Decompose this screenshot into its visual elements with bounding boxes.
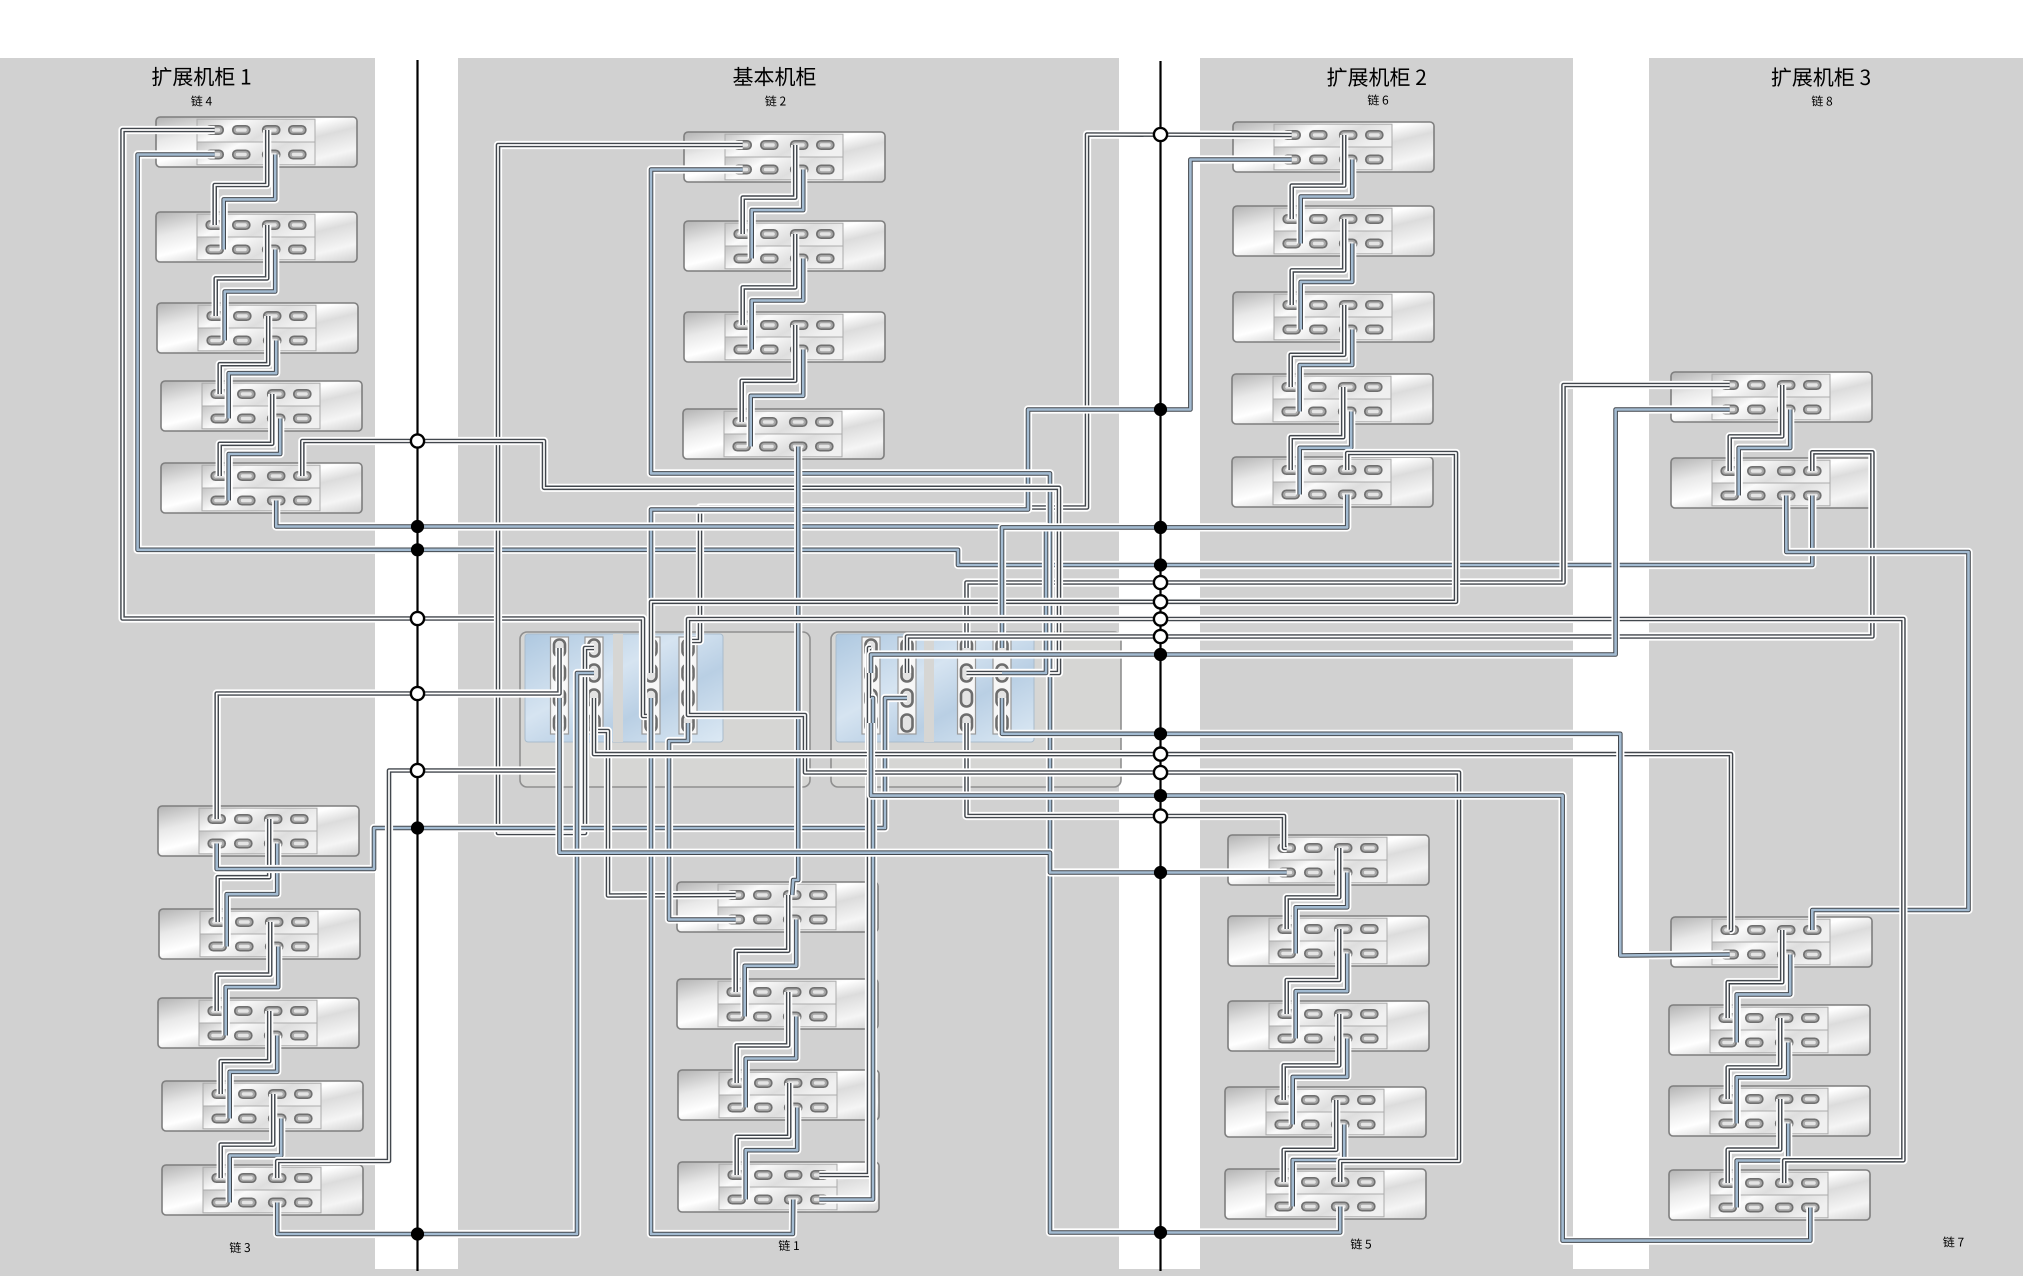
crossing circle on line2 y=772.5 [1154,766,1167,779]
disk shelf D3 (chain1) [678,1070,879,1120]
blue cable D3 bottom port3 to D4 bottom port1 [746,1108,798,1200]
blue cable D2 bottom port3 to D3 bottom port1 [746,1017,797,1108]
dark cable A5 top port4 to controller2 HBA3 port2 [302,441,1059,673]
blue cable B2 bottom port3 to B3 bottom port1 [752,259,804,350]
blue cable C3 bottom port3 to C4 bottom port1 [230,1036,278,1119]
junction dot on line1 y=1234 [411,1227,424,1240]
junction dot on line2 y=409.5 [1154,403,1167,416]
disk shelf A3 (chain4) [157,303,358,353]
disk shelf A2 (chain4) [156,212,357,262]
blue cable F3 bottom port3 to F4 bottom port1 [1293,1039,1348,1125]
dark cable controller1 HBA3 port4 to A1 top port1 [123,130,652,723]
blue cable B1 bottom port1 to F5 bottom port3 [651,170,1340,1233]
disk shelf C4 (chain3) [162,1081,363,1131]
dark cable H3 top port3 to H4 top port1 [1728,1099,1781,1183]
dark cable controller2 HBA3 port1 to G1 top port1 [967,385,1730,648]
label chain 7 (链 7) [1943,1236,1963,1247]
dark cable F2 top port3 to F3 top port1 [1287,929,1340,1014]
label chain 2 (链 2) [765,95,785,106]
dark cable F1 top port3 to F2 top port1 [1287,848,1340,929]
dark cable B3 top port3 to B4 top port1 [742,325,796,422]
dark cable D3 top port3 to D4 top port1 [737,1083,790,1175]
disk shelf F2 (chain5) [1228,916,1429,966]
disk shelf D4 (chain1) [678,1162,879,1212]
disk shelf B4 (chain2) [683,409,884,459]
disk shelf A4 (chain4) [161,381,362,431]
blue cable controller1 HBA1 port3 to F1 bottom port1 [560,698,1287,873]
label chain 8 (链 8) [1812,95,1832,106]
dark cable controller2 HBA2 port2 to G2 top port4 [907,452,1872,673]
crossing circle on line2 y=636.5 [1154,630,1167,643]
cabinet panel: expansion rack 3 [1649,58,2023,1276]
cabinet panel: expansion rack 1 [0,58,375,1276]
junction dot on line2 y=795.6 [1154,789,1167,802]
dark cable E4 top port3 to E5 top port1 [1291,387,1344,470]
label chain 5 (链 5) [1351,1238,1371,1249]
blue cable controller1 HBA4 port4 to D1 bottom port1 [669,723,736,920]
disk shelf B2 (chain2) [684,221,885,271]
disk shelf G2 (chain8) [1671,458,1872,508]
disk shelf E4 (chain6) [1232,374,1433,424]
blue cable controller1 HBA3 port3 to D4 bottom port3 [651,698,793,1234]
blue cable A2 bottom port3 to A3 bottom port1 [225,250,276,341]
disk shelf H1 (chain7) [1671,917,1872,967]
label chain 3 (链 3) [230,1242,250,1253]
junction dot on line2 y=733.8 [1154,727,1167,740]
disk shelf A1 (chain4) [156,117,357,167]
title rack2 (扩展机柜 2) [1327,67,1425,86]
dark cable D1 top port3 to D2 top port1 [736,895,789,992]
boundary line 2 [1159,61,1161,1271]
dark cable controller1 HBA2 port3 to H1 top port1 [594,698,1731,930]
bottom strip [0,1269,2023,1276]
disk shelf A5 (chain4) [161,463,362,513]
blue cable controller2 HBA2 port3 to C1 bottom port1 [217,698,907,869]
crossing circle on line1 y=441 [411,434,424,447]
dark cable controller1 HBA3 port2 to E5 top port3 [651,453,1456,673]
dark cable F3 top port3 to F4 top port1 [1284,1014,1340,1100]
disk shelf E2 (chain6) [1233,206,1434,256]
dark cable controller1 HBA2 port1 to B1 top port1 [498,145,743,833]
title rack3 (扩展机柜 3) [1772,67,1870,86]
disk shelf G1 (chain8) [1671,372,1872,422]
blue cable E3 bottom port3 to E4 bottom port1 [1300,330,1353,412]
disk shelf B3 (chain2) [684,312,885,362]
dark cable A1 top port3 to A2 top port1 [215,130,268,225]
dark cable controller1 HBA2 port4 to D1 top port1 [594,723,736,896]
dark cable C1 top port3 to C2 top port1 [218,819,270,922]
junction dot on line2 y=565 [1154,558,1167,571]
dark cable B1 top port3 to B2 top port1 [743,145,796,234]
label chain 4 (链 4) [191,95,212,106]
disk shelf F1 (chain5) [1228,835,1429,885]
dark cable A4 top port3 to A5 top port1 [220,394,273,476]
title rack1 (扩展机柜 1) [152,67,250,86]
dark cable C2 top port3 to C3 top port1 [217,922,271,1011]
dark cable C3 top port3 to C4 top port1 [221,1011,270,1094]
blue cable F4 bottom port3 to F5 bottom port1 [1293,1125,1345,1207]
blue cable A5 bottom port3 to controller2 HBA4 port2 [276,501,1046,674]
blue cable controller1 HBA3 port1 to E1 bottom port1 [651,160,1292,649]
blue cable G1 bottom port3 to G2 bottom port1 [1739,410,1791,496]
dark cable H1 top port3 to H2 top port1 [1728,930,1783,1018]
disk shelf H3 (chain7) [1669,1086,1870,1136]
label chain 6 (链 6) [1368,94,1389,105]
disk shelf C1 (chain3) [158,806,359,856]
blue cable A1 bottom port3 to A2 bottom port1 [224,155,276,250]
blue cable controller2 HBA1 port2 to G1 bottom port1 [871,410,1730,674]
crossing circle on line1 y=770.5 [411,764,424,777]
dark cable controller2 HBA1 port1 to D4 top port4 [819,648,871,1175]
disk shelf E5 (chain6) [1232,457,1433,507]
disk shelf B1 (chain2) [684,132,885,182]
blue cable B4 bottom port3 to D1 top port3 [792,447,798,896]
dark cable E1 top port3 to E2 top port1 [1292,135,1345,219]
junction dot on line1 y=526.5 [411,520,424,533]
disk shelf C2 (chain3) [159,909,360,959]
blue cable A4 bottom port3 to A5 bottom port1 [229,419,281,501]
disk shelf C5 (chain3) [162,1165,363,1215]
junction dot on line2 y=1232.5 [1154,1226,1167,1239]
dark cable controller2 HBA3 port4 to F1 top port1 [967,723,1287,848]
crossing circle on line2 y=754.1 [1154,748,1167,761]
blue cable D1 bottom port3 to D2 bottom port1 [745,920,797,1017]
dark cable H2 top port3 to H3 top port1 [1728,1018,1781,1099]
blue cable H1 bottom port3 to H2 bottom port1 [1737,955,1791,1043]
disk shelf F4 (chain5) [1225,1087,1426,1137]
junction dot on line1 y=828 [411,821,424,834]
crossing circle on line1 y=618.5 [411,612,424,625]
blue cable B1 bottom port3 to B2 bottom port1 [752,170,804,259]
disk shelf D2 (chain1) [677,979,878,1029]
dark cable controller1 HBA4 port3 to H4 top port3 [688,619,1903,1183]
blue cable F1 bottom port3 to F2 bottom port1 [1296,873,1348,954]
blue cable A3 bottom port3 to A4 bottom port1 [229,341,277,419]
blue cable A1 bottom port1 to G2 bottom port4 [138,155,1813,566]
crossing circle on line2 y=134.5 [1154,128,1167,141]
dark cable controller1 HBA4 port1 to E1 top port1 [688,135,1292,649]
dark cable C4 top port3 to C5 top port1 [221,1094,274,1178]
blue cable G2 bottom port3 to H1 top port4 [1786,496,1968,931]
junction dot on line1 y=549.8 [411,543,424,556]
blue cable H2 bottom port3 to H3 bottom port1 [1737,1043,1789,1124]
boundary line 1 [416,60,418,1271]
blue cable controller2 HBA1 port4 to H4 bottom port4 [871,723,1810,1241]
blue cable E1 bottom port3 to E2 bottom port1 [1301,160,1353,244]
controller 1 [520,632,810,787]
dark cable B2 top port3 to B3 top port1 [743,234,796,325]
junction dot on line2 y=654.5 [1154,648,1167,661]
title base rack (基本机柜) [733,67,815,86]
dark cable A2 top port3 to A3 top port1 [216,225,268,316]
disk shelf F3 (chain5) [1228,1001,1429,1051]
controller 2 [831,632,1121,787]
crossing circle on line2 y=601.8 [1154,595,1167,608]
disk shelf F5 (chain5) [1225,1169,1426,1219]
dark cable F4 top port3 to F5 top port1 [1284,1100,1337,1182]
disk shelf C3 (chain3) [158,998,359,1048]
junction dot on line2 y=872.5 [1154,866,1167,879]
blue cable F2 bottom port3 to F3 bottom port1 [1296,954,1348,1039]
dark cable controller1 HBA1 port4 to C5 top port3 [277,723,559,1178]
dark cable E2 top port3 to E3 top port1 [1292,219,1345,305]
crossing circle on line2 y=582.5 [1154,576,1167,589]
dark cable G1 top port3 to G2 top port1 [1730,385,1783,471]
dark cable E3 top port3 to E4 top port1 [1291,305,1345,387]
crossing circle on line2 y=816 [1154,809,1167,822]
blue cable E2 bottom port3 to E3 bottom port1 [1301,244,1353,330]
junction dot on line2 y=527.4 [1154,521,1167,534]
blue cable C2 bottom port3 to C3 bottom port1 [226,947,279,1036]
blue cable E4 bottom port3 to E5 bottom port1 [1300,412,1352,495]
blue cable E5 bottom port3 to controller2 HBA4 port1 [1002,495,1347,649]
disk shelf H2 (chain7) [1669,1005,1870,1055]
dark cable controller1 HBA4 port2 to F5 top port3 [688,673,1459,1182]
crossing circle on line1 y=693.5 [411,687,424,700]
dark cable controller1 HBA1 port1 to C1 top port1 [217,648,560,819]
dark cable D2 top port3 to D3 top port1 [737,992,789,1083]
blue cable C1 bottom port3 to C2 bottom port1 [227,844,278,947]
disk shelf H4 (chain7) [1669,1170,1870,1220]
blue cable H3 bottom port3 to H4 bottom port1 [1737,1124,1789,1208]
cabinet panel: expansion rack 2 [1200,58,1573,1276]
blue cable C4 bottom port3 to C5 bottom port1 [230,1119,282,1203]
crossing circle on line2 y=619 [1154,612,1167,625]
blue cable controller2 HBA1 port3 to D4 bottom port4 [819,698,873,1200]
label chain 1 (链 1) [779,1240,799,1251]
dark cable A3 top port3 to A4 top port1 [220,316,269,394]
disk shelf D1 (chain1) [677,882,878,932]
blue cable controller2 HBA4 port3 to H1 bottom port1 [1002,698,1730,956]
disk shelf E1 (chain6) [1233,122,1434,172]
cabinet panel: base rack [458,58,1119,1276]
disk shelf E3 (chain6) [1233,292,1434,342]
blue cable B3 bottom port3 to B4 bottom port1 [751,350,804,447]
blue cable C5 bottom port3 to controller1 HBA2 port2 [277,673,594,1234]
